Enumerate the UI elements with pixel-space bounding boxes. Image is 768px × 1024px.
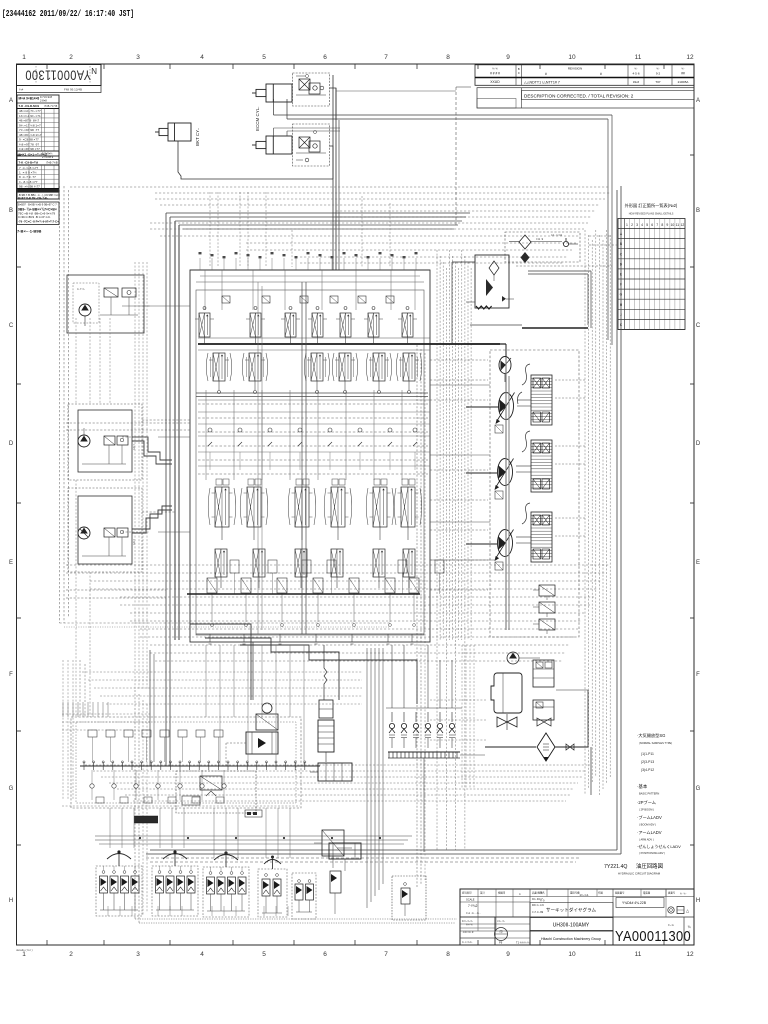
drawing number sub row	[17, 86, 102, 93]
travel pedal cluster	[292, 873, 316, 919]
svg-text:7·Y¾2: 7·Y¾2	[468, 904, 478, 908]
offset cylinder ECCM CYL upper	[252, 84, 292, 102]
tank return trunk lines	[146, 690, 591, 862]
bottom left mesh supplement	[62, 660, 300, 806]
pump suction strainers	[495, 425, 503, 570]
check valve manifold row	[386, 708, 462, 748]
legend atmospheric type note	[637, 732, 672, 772]
zone tick marks bottom edge	[47, 940, 664, 945]
svg-text:11: 11	[635, 54, 642, 61]
svg-text:HOW REVISED PLANS SMALL-DETAIL: HOW REVISED PLANS SMALL-DETAILS	[629, 213, 674, 216]
svg-text:油圧回路図: 油圧回路図	[636, 862, 663, 870]
svg-text:7¾ ×97 98 ·77: 7¾ ×97 98 ·77	[19, 128, 39, 132]
svg-text:C×9C××B×9 ·B ¾×P·¾C·: C×9C××B×9 ·B ¾×P·¾C·	[18, 215, 51, 219]
pilot valve cluster left pair B	[152, 850, 198, 916]
svg-text:B×K7 8·B 7B ·CB·¾B·: B×K7 8·B 7B ·CB·¾B·	[18, 196, 48, 200]
wire stepped pair from lower-left block	[132, 506, 172, 533]
pilot manifold component row 1	[88, 730, 223, 762]
svg-text:F: F	[696, 672, 700, 678]
row C pilot caps	[216, 479, 415, 485]
svg-text:5: 5	[262, 951, 266, 958]
svg-text:¾·: ¾·	[656, 67, 659, 71]
title block scale cell	[466, 898, 481, 916]
row D side cap units	[230, 560, 444, 594]
regulator signal dashes	[555, 380, 585, 536]
pilot block mid-left	[68, 404, 142, 480]
pilot line bundle top horizontal	[70, 187, 610, 263]
diagram code caption	[604, 862, 663, 876]
left area horizontal links	[66, 420, 190, 598]
svg-text:8: 8	[446, 951, 450, 958]
svg-text:HYDRAULIC CIRCUIT DIAGRAM: HYDRAULIC CIRCUIT DIAGRAM	[618, 872, 661, 876]
svg-text:/7×B·7×7·B: /7×B·7×7·B	[44, 104, 58, 108]
svg-text:¾8 ×97 78 ·97: ¾8 ×97 78 ·97	[19, 142, 39, 146]
svg-text:·2Pブーム: ·2Pブーム	[637, 799, 656, 805]
svg-text:7·K ·C9·B×¾9: 7·K ·C9·B×¾9	[19, 161, 39, 165]
svg-text:#: #	[545, 72, 547, 76]
solenoid valve trio lower	[533, 585, 555, 634]
svg-text:検図印: 検図印	[498, 891, 506, 895]
title block header labels	[462, 891, 687, 903]
svg-text:¾9·7: ¾9·7	[132, 444, 136, 450]
main pump P1	[466, 393, 515, 431]
svg-text:印: 印	[499, 929, 502, 934]
upper tier spool valves row A	[195, 307, 417, 345]
svg-text:1: 1	[626, 223, 628, 227]
svg-text:¾1 ·1 ¾9: ¾1 ·1 ¾9	[551, 233, 563, 237]
svg-text:H: H	[696, 898, 700, 904]
svg-text:△△NDTT1 /△NTT1# 7: △△NDTT1 /△NTT1# 7	[524, 81, 560, 85]
legend configuration list	[637, 783, 681, 855]
svg-text:1 ·×·8 9 ×7¾: 1 ·×·8 9 ×7¾	[19, 171, 37, 175]
mid vertical pilot bundle	[367, 648, 383, 908]
svg-text:/7×B·7¾B: /7×B·7¾B	[46, 161, 58, 165]
svg-text:担当者印: 担当者印	[462, 891, 472, 895]
svg-text:¾·: ¾·	[681, 67, 684, 71]
svg-text:1¾.¾1: 1¾.¾1	[579, 893, 589, 897]
pump regulator stack R2	[516, 431, 552, 492]
travel pilot valve body	[310, 763, 352, 781]
pilot line bundle left vertical	[60, 186, 391, 627]
right of block connector dashes	[430, 360, 488, 590]
svg-text:YA00011300: YA00011300	[25, 68, 91, 83]
svg-text:##: ##	[681, 72, 685, 76]
wire block bottom to check manifold	[392, 645, 452, 708]
svg-text:3: 3	[136, 951, 140, 958]
wire from bucket cylinder to pilot bus	[178, 141, 333, 179]
svg-text:頁番号: 頁番号	[668, 891, 676, 895]
svg-text:10: 10	[568, 951, 576, 958]
spare pilot valve small	[392, 876, 426, 920]
svg-text:9·7×9·9×8: 9·7×9·9×8	[40, 95, 53, 99]
svg-text:¾·: ¾·	[634, 67, 637, 71]
svg-text:BKT CY..: BKT CY..	[195, 128, 200, 146]
holding valve block lower	[293, 124, 330, 166]
svg-text:M×A 9×B14×8: M×A 9×B14×8	[19, 97, 40, 101]
model number cell	[616, 898, 664, 908]
svg-text:電装図: 電装図	[643, 891, 651, 895]
control valve block outer housing	[190, 270, 430, 642]
svg-text:品番 機種名: 品番 機種名	[532, 891, 545, 895]
svg-text:YA00011300: YA00011300	[615, 929, 691, 945]
offset cylinder ECCM CYL lower	[252, 136, 292, 154]
bottom right vertical dashes	[430, 645, 486, 788]
approval stamp circle	[495, 928, 508, 941]
work port double rail	[196, 393, 428, 397]
block internal vertical gallery pair	[258, 282, 306, 634]
pilot valve cluster C	[203, 851, 249, 917]
svg-text:E: E	[696, 560, 700, 566]
border frame	[17, 64, 695, 945]
svg-text:5: 5	[646, 223, 648, 227]
correction location table grid	[618, 219, 685, 330]
pilot line bundle bottom band	[85, 690, 590, 923]
svg-text:サーキットダイヤグラム: サーキットダイヤグラム	[546, 907, 597, 914]
svg-text:C: C	[9, 323, 14, 329]
svg-text:10: 10	[670, 223, 674, 227]
svg-text:·ブームLADV: ·ブームLADV	[637, 814, 662, 820]
fourth tier spool valves row D	[215, 549, 415, 588]
zone numbers bottom edge	[22, 951, 694, 958]
cooling fan pump	[507, 652, 540, 664]
upper small pilot valves above row A	[222, 296, 394, 303]
svg-text:6: 6	[323, 54, 327, 61]
svg-text:A: A	[696, 98, 700, 104]
svg-text:7·B×···1·B9B: 7·B×···1·B9B	[17, 229, 41, 234]
wire left bus to manifold	[80, 650, 154, 766]
manifold hatched bar	[134, 816, 158, 823]
svg-text:¾7·¾·99: ¾7·¾·99	[532, 910, 544, 914]
svg-text:作図: 作図	[598, 891, 603, 895]
svg-text:·79 ·7C×C ·8 P×¾·9·97×¾7·C×: ·79 ·7C×C ·8 P×¾·9·97×¾7·C×	[18, 220, 59, 224]
svg-text:11: 11	[635, 951, 642, 958]
tank gallery at block bottom	[196, 634, 424, 644]
control valve inlet header lines	[196, 270, 424, 310]
svg-text:11: 11	[676, 223, 680, 227]
svg-text:7Y221.4Q: 7Y221.4Q	[604, 864, 627, 870]
svg-text:¾×·¾: ¾×·¾	[466, 923, 474, 927]
port label ticks above valve block	[199, 252, 418, 270]
svg-text:¾9·7: ¾9·7	[132, 539, 136, 545]
svg-text:P9: P9	[499, 941, 503, 945]
pilot valve cluster left pair A	[96, 850, 142, 916]
revision history table	[475, 65, 694, 86]
svg-text:13 ×¾1 9¾ ×71: 13 ×¾1 9¾ ×71	[19, 114, 41, 118]
left unit connection dashes	[122, 306, 150, 532]
svg-text:図面番号: 図面番号	[615, 891, 625, 895]
cooler bypass butterfly	[497, 714, 517, 730]
pump drive shaft line	[506, 357, 509, 630]
pilot tank unit	[329, 843, 361, 914]
drop lines valve block to bottom bands	[206, 645, 304, 766]
svg-text:¾1 ·¾···¾··: ¾1 ·¾···¾··	[466, 911, 481, 915]
svg-text:D: D	[9, 441, 14, 447]
svg-text:SCALE: SCALE	[466, 898, 475, 902]
svg-text:Y¾D4# 4¾.22B: Y¾D4# 4¾.22B	[622, 901, 647, 905]
secondary bus lines	[198, 338, 430, 350]
pump regulator stack R1	[517, 375, 552, 425]
svg-text:#: #	[600, 72, 602, 76]
pilot manifold component row 3	[96, 797, 224, 803]
svg-text:( POSITIONING ADV ): ( POSITIONING ADV )	[639, 851, 665, 855]
svg-text:B×B97 · B×9B·¾×B·9·9B×97·C·7·: B×B97 · B×9B·¾×B·9·9B×97·C·7·	[18, 203, 58, 207]
svg-text:¾·¾: ¾·¾	[668, 923, 675, 927]
svg-text:B: B	[9, 208, 13, 214]
solid return lines right	[146, 186, 621, 854]
svg-text:¾ ·8·¾ 8 ×77: ¾ ·8·¾ 8 ×77	[19, 180, 38, 184]
svg-text:8 ·¾·7 9 ·77: 8 ·¾·7 9 ·77	[19, 175, 36, 179]
svg-text:8: 8	[661, 223, 663, 227]
svg-text:210D5A: 210D5A	[678, 80, 689, 84]
svg-text:(3)4-P12: (3)4-P12	[641, 768, 654, 772]
svg-text:9·7×9×¾: 9·7×9×¾	[42, 152, 53, 156]
svg-text:7 ·¾·¾ 8 ¾77: 7 ·¾·¾ 8 ¾77	[19, 166, 39, 170]
fan motor valve stack lower	[533, 700, 554, 726]
svg-text:1: 1	[22, 54, 26, 61]
svg-text:G: G	[9, 786, 14, 792]
svg-text:¾·¾: ¾·¾	[492, 67, 498, 71]
main pressure bus	[198, 343, 500, 345]
check manifold gallery bar	[388, 752, 460, 758]
svg-text:N: N	[91, 66, 97, 75]
holding valve block upper	[293, 73, 330, 106]
wire gray pair from filter to right	[528, 271, 591, 328]
left area vertical pilot drops	[76, 318, 110, 717]
swing parking brake lines	[226, 743, 246, 766]
regulator pilot curves R1	[518, 364, 531, 404]
title block outer	[460, 889, 694, 945]
svg-text:4: 4	[200, 54, 204, 61]
svg-text:¾·7·¾: ¾·7·¾	[77, 287, 85, 291]
svg-text:設計: 設計	[480, 891, 485, 895]
pilot cluster wires down	[108, 906, 288, 916]
svg-text:5: 5	[262, 54, 266, 61]
svg-text:·¾9·×¾·9: ·¾9·×¾·9	[462, 930, 474, 934]
pump regulator stack R3	[516, 503, 552, 562]
svg-text:9·2: 9·2	[656, 72, 661, 76]
machine type cell	[530, 918, 613, 931]
pilot line riser bundle to valve block	[333, 75, 339, 270]
mid gallery check valves	[208, 428, 417, 470]
swing motor assembly	[246, 642, 278, 754]
svg-text:( 2P BOOM ): ( 2P BOOM )	[639, 808, 654, 812]
svg-text:T07: T07	[655, 80, 661, 84]
upper center vertical pilot drops	[210, 192, 390, 267]
left margin small cells	[460, 917, 530, 945]
wire pair to right side pumps	[274, 99, 613, 345]
third angle projection symbol	[668, 907, 690, 928]
hose specification table 1	[17, 95, 59, 156]
valve block outlet wires to pumps	[430, 344, 506, 357]
svg-text:外形図 訂正箇所一覧表(№2): 外形図 訂正箇所一覧表(№2)	[625, 202, 678, 209]
pilot manifold bus with taps	[80, 761, 320, 770]
svg-text:7: 7	[384, 951, 388, 958]
svg-text:¾: ¾	[688, 925, 691, 929]
svg-text:7: 7	[384, 54, 388, 61]
pilot filter unit	[505, 232, 580, 263]
approved date cells	[532, 897, 544, 914]
svg-text:12: 12	[686, 54, 694, 61]
svg-text:BASIC PATTERN: BASIC PATTERN	[639, 792, 659, 796]
wire from lower holding valve	[330, 146, 334, 179]
travel shift valve	[314, 830, 344, 868]
svg-text:C: C	[696, 323, 701, 329]
svg-text:(1)1-P11: (1)1-P11	[641, 752, 654, 756]
cross connection wires middle	[122, 306, 531, 560]
drawing number large	[615, 917, 691, 945]
svg-text:48 ×8¾ ¾9 1¾7: 48 ×8¾ ¾9 1¾7	[19, 133, 42, 137]
svg-text:1: 1	[688, 937, 690, 941]
svg-text:T1·¾¾¾·¾·: T1·¾¾¾·¾·	[516, 941, 530, 945]
zone tick marks top edge	[47, 64, 664, 69]
hydraulic tank and oil cooler	[491, 673, 522, 713]
svg-text:(NORMAL SAMPLES TYPE): (NORMAL SAMPLES TYPE)	[639, 741, 672, 745]
fifth tier small valves row E	[207, 578, 419, 626]
svg-text:¾·×·¾¾·: ¾·×·¾¾·	[462, 940, 473, 944]
svg-text:7: 7	[656, 223, 658, 227]
svg-text:details.( for ): details.( for )	[16, 948, 33, 952]
svg-text:3: 3	[136, 54, 140, 61]
wire stepped pair from mid-left block	[132, 437, 172, 464]
svg-text:4: 4	[641, 223, 643, 227]
spool end bracket arcs row B	[206, 353, 422, 381]
dark supply segment upper right	[470, 325, 588, 328]
svg-text:A: A	[9, 98, 13, 104]
svg-text:DESCRIPTION CORRECTED. / TOTAL: DESCRIPTION CORRECTED. / TOTAL REVISION:…	[524, 94, 634, 99]
svg-text:( BOOM ADV ): ( BOOM ADV )	[639, 823, 656, 827]
svg-text:F: F	[9, 672, 13, 678]
manifold inlet drop lines	[63, 702, 108, 717]
svg-text:4·5·6: 4·5·6	[632, 72, 639, 76]
svg-text:(2)3-P13: (2)3-P13	[641, 760, 654, 764]
second tier spool valves row B	[209, 353, 419, 394]
pilot block lower-left	[68, 488, 142, 572]
filter area link dashes	[516, 236, 617, 266]
svg-text:E: E	[9, 560, 13, 566]
hose specification table 2	[17, 151, 59, 200]
fan motor valve stack upper	[533, 660, 554, 687]
svg-text:9: 9	[506, 54, 510, 61]
center work port lines row	[198, 390, 430, 480]
zone letters right edge	[696, 98, 701, 904]
svg-text:ECCM CYL.: ECCM CYL.	[255, 106, 260, 131]
svg-text:12: 12	[686, 951, 694, 958]
svg-text:2: 2	[69, 951, 73, 958]
svg-text:9· ×C8 98 ×77: 9· ×C8 98 ×77	[19, 138, 39, 142]
pilot line bundle right vertical inner	[437, 250, 471, 850]
lower return bus dark	[187, 593, 420, 595]
svg-text:9¾·D¾7: 9¾·D¾7	[532, 897, 543, 901]
third tier main spools row C	[212, 487, 419, 540]
rotated drawing number box	[17, 65, 102, 86]
svg-text:48 ×1¾ 7¾ ×77: 48 ×1¾ 7¾ ×77	[19, 109, 41, 113]
row B spring and solenoid caps	[211, 357, 418, 377]
title block grid	[460, 889, 694, 945]
left riser bus solid	[166, 213, 470, 766]
svg-text:H: H	[9, 898, 13, 904]
pilot manifold enclosure	[71, 717, 301, 808]
svg-text:B: B	[518, 67, 520, 71]
svg-text:9¾ ×17 ¾8 1×7: 9¾ ×17 ¾8 1×7	[19, 123, 41, 127]
svg-text:D: D	[696, 441, 701, 447]
bucket cylinder BKT CY	[155, 123, 200, 146]
svg-text:·ぜんしょうせんくLADV: ·ぜんしょうせんくLADV	[637, 843, 681, 849]
general notes block	[17, 202, 59, 225]
long pilot drop lines to clusters	[110, 808, 290, 858]
svg-text:6: 6	[651, 223, 653, 227]
zone numbers top edge	[22, 54, 694, 61]
company name cell	[530, 931, 613, 945]
zone tick marks left edge	[17, 155, 22, 845]
revision description row	[477, 88, 694, 108]
main pump P4	[466, 530, 514, 562]
pilot supply wires above clusters	[95, 836, 412, 844]
pump group enclosure	[490, 350, 579, 637]
svg-text:2: 2	[631, 223, 633, 227]
svg-text:REVISION: REVISION	[568, 67, 582, 71]
stepped return wires block bottom	[190, 624, 417, 704]
svg-text:9: 9	[506, 951, 510, 958]
svg-text:¾#: ¾#	[19, 88, 24, 92]
svg-text:9·¾·¾·¾: 9·¾·¾·¾	[462, 919, 473, 923]
zone tick marks right edge	[690, 155, 694, 845]
svg-text:9: 9	[666, 223, 668, 227]
pilot manifold component row 2	[90, 770, 226, 800]
svg-text:( ARM ADV ): ( ARM ADV )	[639, 838, 654, 842]
svg-text:·大気開放型SG: ·大気開放型SG	[637, 732, 665, 739]
svg-text:·基本: ·基本	[637, 783, 648, 790]
zone letters left edge	[9, 98, 14, 904]
svg-text:4: 4	[200, 951, 204, 958]
svg-text:×¾··¾: ×¾··¾	[497, 919, 505, 923]
solenoid block in manifold	[176, 771, 262, 817]
main pump P2	[466, 459, 514, 491]
svg-text:B: B	[696, 208, 700, 214]
svg-text:2: 2	[69, 54, 73, 61]
svg-text:10: 10	[568, 54, 576, 61]
svg-text:¾· ¾··: ¾· ¾··	[680, 893, 687, 896]
bottom mid horizontal dashes	[82, 672, 362, 704]
shuttle manifold box upper-left	[67, 275, 144, 333]
svg-text:Hitachi Construction Machinery: Hitachi Construction Machinery Group	[541, 937, 601, 941]
svg-text:XXUD: XXUD	[490, 80, 500, 84]
svg-text:G: G	[696, 786, 701, 792]
pilot line bundle right vertical outer	[585, 230, 610, 795]
mid vertical dashed pair	[417, 345, 425, 888]
title drawing name japanese	[530, 903, 613, 918]
wire check manifold to tank	[424, 755, 485, 852]
return filter	[485, 733, 588, 761]
line filter to valve block	[452, 262, 475, 344]
svg-text:2·8×8: 2·8×8	[40, 99, 47, 103]
svg-text:# # # #: # # # #	[490, 72, 500, 76]
svg-text:UH30II-100AMY: UH30II-100AMY	[553, 923, 590, 929]
center joint	[318, 720, 334, 762]
svg-text:[23444162 2011/09/22/ 16:17:40: [23444162 2011/09/22/ 16:17:40 JST]	[2, 8, 134, 19]
svg-text:46 ×87 9· 8¾7: 46 ×87 9· 8¾7	[19, 119, 39, 123]
center joint upper valve	[319, 645, 333, 718]
svg-text:8: 8	[446, 54, 450, 61]
svg-text:D9·¾·¾9: D9·¾·¾9	[532, 903, 544, 907]
accumulator block	[475, 255, 514, 309]
svg-text:FMI 99.12/4B: FMI 99.12/4B	[64, 88, 82, 92]
valve block mid gallery dashes	[198, 404, 428, 474]
wire from upper holding valve	[330, 88, 337, 120]
svg-text:1: 1	[22, 951, 26, 958]
pilot gear pump P3	[499, 357, 511, 383]
left inter-area vertical dashes	[135, 262, 147, 690]
svg-text:12: 12	[681, 223, 685, 227]
